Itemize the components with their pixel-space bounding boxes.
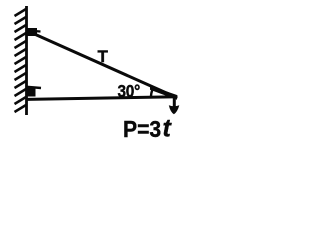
svg-text:t: t [163,115,173,143]
svg-text:T: T [98,47,109,66]
horizontal member [28,97,178,100]
rope T (diagonal member) [31,33,176,98]
tick A [27,31,41,32]
force P arrowhead [169,105,180,114]
tick B [27,87,41,88]
wall line [25,6,28,115]
pin A (top attachment) [27,28,37,36]
pin B (bottom attachment) [27,88,36,97]
svg-text:P=3: P=3 [123,116,161,142]
wall hatching [15,9,27,112]
force P arrow stem [173,96,176,107]
svg-text:30°: 30° [118,82,140,101]
wedge (thick end of diagonal) [150,86,177,100]
angle arc [151,89,153,99]
